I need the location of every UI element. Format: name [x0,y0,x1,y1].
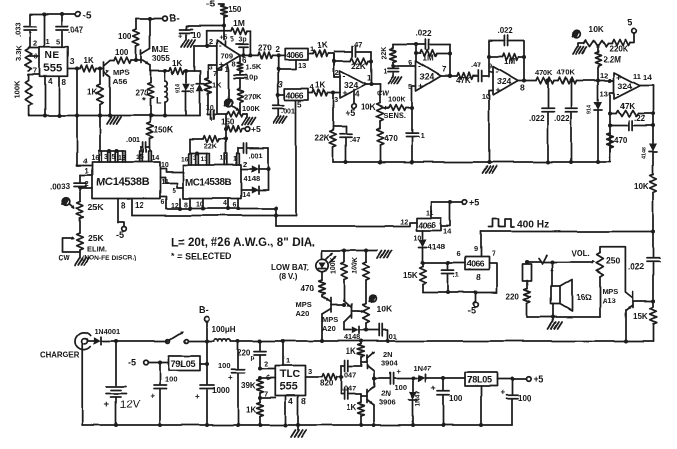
svg-text:8: 8 [520,83,525,93]
wiper loop 25K-2 [62,238,80,252]
svg-text:1.5K: 1.5K [246,63,262,72]
svg-text:820: 820 [320,379,334,388]
svg-text:150K: 150K [154,125,173,134]
svg-text:4148: 4148 [428,242,445,251]
svg-text:MPS: MPS [113,68,129,77]
capacitor .47 coupling [473,75,477,77]
svg-text:(8 V.): (8 V.) [279,272,298,281]
resistor 1K tlc [259,398,261,403]
wiper volume arrow [527,261,592,263]
svg-text:100: 100 [118,32,132,41]
svg-text:.001: .001 [126,135,141,144]
wire 709 output [248,53,252,57]
svg-text:400 Hz: 400 Hz [517,220,549,231]
svg-text:100: 100 [394,383,407,392]
svg-text:VOL.: VOL. [571,249,590,258]
svg-text:100K: 100K [388,95,406,104]
svg-text:.022: .022 [554,114,570,123]
resistor 22K gain [393,65,416,67]
svg-text:1: 1 [383,69,387,76]
resistor 10K to audio [650,174,657,192]
svg-text:CHARGER: CHARGER [40,351,80,360]
svg-text:p: p [251,355,255,362]
capacitor .022 fb1 [425,40,427,50]
resistor 100K left [28,74,30,80]
pin 8 wire tlc [297,396,299,431]
svg-text:8: 8 [302,396,307,406]
svg-text:.047: .047 [68,26,84,35]
svg-text:+5: +5 [345,108,355,118]
svg-text:3: 3 [334,95,338,104]
svg-text:10K: 10K [361,103,376,112]
svg-text:.47: .47 [471,61,481,70]
svg-text:1K: 1K [246,405,256,414]
svg-text:100μH: 100μH [212,325,236,334]
wire 1K to 324 pin3 [327,92,340,94]
inductor L search coil [164,71,166,81]
pin 2 [29,47,40,49]
svg-text:2.2M: 2.2M [603,55,621,64]
svg-text:2: 2 [275,45,280,54]
svg-text:1N47: 1N47 [415,390,422,406]
svg-text:4066: 4066 [467,259,485,269]
svg-text:150: 150 [221,118,235,127]
svg-text:11: 11 [426,210,433,217]
svg-text:.001: .001 [281,106,296,115]
bottom return rail [82,424,512,426]
svg-text:.047: .047 [342,371,356,380]
svg-text:100K: 100K [242,104,260,113]
IC U9 4066 [465,257,489,270]
svg-text:324: 324 [420,71,435,81]
svg-text:4: 4 [355,90,360,99]
pin 4 wire [77,116,92,166]
ground speaker [552,304,554,322]
svg-text:324: 324 [618,81,633,91]
capacitor .033 [29,15,31,26]
transistor Q1 MPS A56 [103,62,105,76]
svg-text:.022: .022 [529,114,545,123]
pin 2 diode 4148 a [241,168,251,170]
terminal B- top [162,16,167,21]
square wave symbol [489,219,514,227]
svg-text:250: 250 [606,256,621,266]
ground bus top-left [29,115,200,117]
svg-text:+5: +5 [251,125,261,135]
ground under gain cap [388,77,393,84]
svg-text:100: 100 [165,375,178,384]
op-amp U5A 324 [340,71,366,98]
svg-text:*: * [142,96,146,107]
pin 6 wire tlc [258,376,262,380]
wire pot top to A13 base [600,247,633,298]
transistor Q5 MPS A13 [632,292,634,308]
pin 3 wire tlc [306,376,323,378]
svg-text:MJE: MJE [152,45,169,54]
svg-text:L: L [156,96,162,106]
svg-text:16Ω: 16Ω [576,293,592,302]
svg-text:470: 470 [384,134,398,143]
IC U1 NE555 [40,47,68,76]
op-amp U2 709 [217,41,240,70]
pin 1 wire tlc [282,341,284,366]
svg-text:1M: 1M [233,18,245,28]
svg-text:A20: A20 [295,309,309,318]
svg-text:+: + [150,392,155,401]
resistor 470K second [558,77,576,84]
svg-text:-: - [419,61,422,71]
svg-text:100K: 100K [352,257,359,274]
svg-text:1: 1 [46,37,50,46]
wiper arrow sens [384,107,389,109]
ground symbol on bus [107,117,112,124]
resistor 150 to +5 [225,114,227,129]
resistor 47K fb [610,113,616,115]
svg-text:4066: 4066 [419,220,437,230]
IC U12 78L05 [465,373,497,387]
pin 6 wire IC1 [160,197,166,209]
wire pot bottom to ground loop [599,277,601,317]
svg-text:15: 15 [220,155,228,162]
svg-text:NE: NE [45,50,59,61]
svg-text:+5: +5 [533,374,543,384]
svg-text:15K: 15K [633,312,648,321]
svg-text:25K: 25K [88,202,105,212]
svg-text:1N47: 1N47 [413,364,431,373]
pin 8 wire IC1 to -5 [117,199,119,223]
resistor 1M fb2 [489,56,502,58]
resistor 1M fb1 [416,45,418,62]
resistor 1M feedback 709 [206,31,208,46]
terminal +5 top-right [632,28,637,33]
resistor 1K pin3 [207,65,209,78]
svg-text:3: 3 [70,57,75,66]
ground under pin10 wire [483,166,488,173]
capacitor .022 lp1 [547,81,549,108]
svg-text:7: 7 [33,66,37,75]
diode 4148 gate [419,240,427,248]
wire to 4066 pin12 [275,209,277,227]
svg-text:+: + [210,116,214,123]
svg-text:1: 1 [286,356,290,365]
feedback right wire [370,52,372,85]
capacitor 10p [234,74,246,76]
capacitor .0033 [79,175,81,182]
IC U10 79L05 [169,356,200,371]
transistor Q7 2N3906 [366,390,368,403]
resistor 1K base [80,65,96,72]
resistor 470 pot bottom [379,121,381,128]
svg-text:100: 100 [449,394,463,403]
pin 1 wire [80,174,92,176]
Q5 emitter wire [625,311,627,342]
resistor 150 [220,5,227,17]
svg-text:12: 12 [600,71,608,80]
svg-text:16: 16 [91,155,99,162]
svg-text:11: 11 [633,72,641,81]
svg-text:.001: .001 [248,151,263,160]
svg-text:4: 4 [48,77,53,86]
diode 914 detector [597,81,599,102]
svg-text:8: 8 [476,272,481,282]
svg-text:.47: .47 [350,135,360,144]
IC U11 TLC555 [275,366,305,396]
capacitor 100 out [511,379,513,395]
svg-text:100: 100 [218,361,231,370]
wire to 709 pin2 [193,46,195,71]
pin 8 wire [58,76,60,115]
capacitor 1000 [206,341,208,384]
wire 1K to 324 pin2 [328,54,340,78]
resistor 220K [608,43,612,45]
svg-text:LOW BAT.: LOW BAT. [271,263,309,272]
terminal +5 mid [245,127,250,132]
pin 7 wire tlc [258,396,262,400]
svg-text:10: 10 [161,162,169,169]
svg-text:3: 3 [104,154,108,161]
capacitor 100 reg1 [159,363,161,386]
main 12V rail [231,340,653,342]
diode 1N47 shunt [412,379,414,392]
capacitor 100 coupling [374,378,389,380]
inductor 100uH [214,339,231,341]
svg-text:4148: 4148 [244,174,260,183]
feedback wire 324-3 [488,41,490,72]
resistor 22K timing [189,139,191,154]
svg-text:100K: 100K [330,257,337,274]
resistor 100K lb2 [365,251,367,263]
capacitor .001 input [273,104,284,106]
pin 14 wire [441,202,450,226]
terminal +5 out [526,377,531,382]
pin 3 wire [68,68,81,70]
svg-text:555: 555 [279,381,298,393]
svg-text:5: 5 [56,37,60,46]
resistor 100 vertical [135,19,137,30]
resistor 270 [150,71,152,83]
svg-text:-5: -5 [206,0,215,10]
wire pin1 NE555 [44,15,46,47]
capacitor .022 fb2 [503,36,505,46]
svg-text:8: 8 [121,201,126,210]
pin stubs bottom IC2 [179,199,181,209]
arrow 25K-1 [70,205,75,209]
resistor 100K trimpot [227,111,243,117]
ground under .001 [273,116,278,123]
pin 4 wire [44,76,46,115]
feedback capacitor .47 [333,54,335,78]
svg-text:-5: -5 [116,230,124,240]
svg-text:470: 470 [614,136,628,145]
wire +5 stub 324-1 [353,90,355,105]
capacitor 3p [236,43,244,45]
wire -5 supply rail top-left [30,14,75,16]
wire +5 out [497,378,526,380]
diode 1N4001 [87,340,94,342]
svg-text:B-: B- [199,305,209,315]
wire top pins IC1 [100,150,124,152]
svg-text:25K: 25K [88,233,105,243]
wiper 2.2M arrow [597,45,599,52]
op-amp U5C 324 [493,66,518,95]
svg-text:1K: 1K [315,81,325,90]
terminal -5 under IC1 [122,227,127,232]
svg-text:.0033: .0033 [50,182,71,191]
svg-text:100: 100 [115,48,129,57]
svg-text:6: 6 [161,199,165,206]
transistor Q3 MPS A20 [330,298,332,312]
svg-text:1: 1 [234,156,238,163]
svg-text:+: + [431,384,436,393]
svg-text:MC14538B: MC14538B [185,178,231,189]
diode 914 right [199,71,201,83]
svg-text:4: 4 [83,157,88,166]
svg-text:555: 555 [44,63,63,75]
svg-text:78L05: 78L05 [467,375,492,385]
capacitor .001 pin15 [140,147,142,151]
ground under 10 cap [181,40,186,47]
pin 3 wire [208,64,217,66]
resistor 3.3K [29,46,30,49]
IC U7 MC14538B [183,165,241,199]
pin 2 wire [80,187,92,189]
svg-text:2: 2 [265,359,269,368]
trimmer hatch circle 10K [573,31,581,39]
ground 25K-2 [79,250,81,258]
svg-text:2: 2 [33,39,37,48]
resistor 100K wiper [389,105,406,111]
svg-text:1K: 1K [87,87,97,96]
svg-text:-: - [496,66,499,76]
svg-text:470K: 470K [557,68,575,77]
svg-text:3906: 3906 [379,398,396,407]
resistor 47K [457,73,473,80]
output node audio dc [372,377,376,381]
capacitor .1 [411,108,413,132]
wire lowbat top [322,250,377,252]
Q4 collector wire [343,322,345,330]
wire 79L05 out [200,363,207,365]
svg-text:A56: A56 [113,77,127,86]
svg-text:3055: 3055 [152,54,170,63]
resistor 220 jack [526,281,528,289]
svg-text:SENS.: SENS. [384,111,406,120]
svg-text:914: 914 [176,84,182,93]
svg-text:4066: 4066 [286,50,304,60]
svg-text:14: 14 [242,192,250,199]
resistor 2.2M [595,52,601,66]
transistor Q2 MJE3055 [140,50,142,63]
transistor Q6 2N3904 [366,356,368,369]
ground at pot right [243,113,247,115]
svg-text:14: 14 [443,227,452,236]
svg-text:13: 13 [118,155,126,162]
wire 226 down to MC pin15 [225,129,227,154]
pin 12 wire IC1 [131,199,133,216]
svg-text:14: 14 [643,73,652,82]
svg-text:+: + [496,85,501,95]
resistor 470 led [321,272,323,280]
svg-text:.1: .1 [453,270,459,279]
capacitor .1 gain [392,66,394,68]
trimmer hatch circle 25K-1 [62,198,70,206]
trimmer hatch circle 709 offset [225,99,233,107]
svg-text:150: 150 [228,5,242,14]
wire input column [277,55,279,105]
svg-text:79L05: 79L05 [171,359,196,369]
svg-text:5: 5 [628,18,634,29]
wire gate node [423,262,465,264]
capacitor .22 fb [610,125,628,127]
pin 5 wire IC2 [165,178,183,188]
ground pot left [579,44,585,48]
svg-text:1K: 1K [212,80,222,89]
svg-text:914: 914 [587,105,593,114]
capacitor .047 lower [341,393,344,395]
resistor 1K tank [169,68,184,75]
svg-text:12: 12 [400,217,408,226]
wire top pins IC2 [190,153,208,155]
svg-text:ELIM.: ELIM. [87,245,107,254]
resistor 15K collector [652,301,654,307]
pin 5 wire to .1 [412,86,416,108]
diode 1N47 series [411,377,415,381]
svg-text:220: 220 [237,349,251,358]
pot 250 volume [597,253,604,277]
IC U4 4066 lower [285,89,308,101]
svg-text:+: + [419,81,424,91]
diode column wire [267,148,269,190]
svg-text:8: 8 [232,60,236,69]
resistor 270K [237,88,243,102]
svg-text:+: + [228,373,233,382]
svg-text:+: + [500,388,505,397]
svg-text:2: 2 [335,68,339,77]
check curl wiper [539,255,547,264]
svg-text:2: 2 [85,179,89,188]
wire -5 to 79L05 [148,362,169,364]
pin 2 wire tlc [258,367,262,371]
resistor 1K pulldown [99,69,101,85]
resistor 39K [257,379,264,393]
feedback right wire fb2 [523,41,525,81]
pin 6 [29,55,40,57]
resistor 150K [149,116,151,123]
pin stubs top IC2 [188,154,190,166]
pin 11 wire [430,202,432,218]
svg-text:7: 7 [264,389,268,398]
svg-text:5: 5 [230,37,234,44]
wire wiper to speaker [551,262,553,286]
resistor 470K first [536,77,554,84]
capacitor 100 filter [441,377,445,381]
svg-text:.047: .047 [342,384,356,393]
Q1 emitter wire [109,78,111,116]
svg-text:1N4001: 1N4001 [94,327,120,336]
pin 10 wire IC1 [160,169,183,173]
pin 4 wire tlc [285,396,287,426]
pot 10K lowbat [363,303,370,323]
svg-text:2: 2 [243,162,247,169]
svg-text:6: 6 [34,52,38,61]
IC U3 4066 upper [285,48,308,60]
svg-text:-5: -5 [128,358,136,368]
Q3 base wire [331,304,344,306]
svg-text:7: 7 [442,65,447,74]
wire 324-1 output [366,84,380,86]
trimmer hatch circle lowbat [370,295,377,302]
terminal B- power [206,322,208,342]
